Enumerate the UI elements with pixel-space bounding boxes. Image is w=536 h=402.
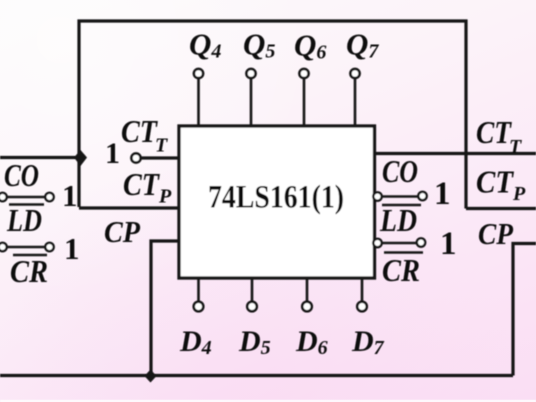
svg-text:1: 1	[105, 137, 120, 170]
overline LD left	[9, 203, 44, 205]
wire CP right riser	[513, 244, 536, 376]
pin CT_T circle	[131, 153, 140, 162]
svg-text:CO: CO	[4, 157, 39, 193]
svg-text:LD: LD	[379, 202, 417, 238]
pin Q5 stub	[246, 69, 255, 127]
svg-text:74LS161(1): 74LS161(1)	[208, 180, 344, 216]
svg-text:CT: CT	[476, 164, 514, 200]
node junction left	[74, 150, 87, 166]
svg-text:CT: CT	[476, 114, 512, 150]
wire top bus	[79, 21, 466, 209]
wire CO right output	[376, 152, 536, 155]
jumper LD left	[0, 193, 54, 201]
node junction bottom	[145, 370, 157, 383]
svg-text:T: T	[509, 136, 522, 158]
svg-text:CR: CR	[382, 252, 420, 288]
pin Q6 stub	[299, 69, 308, 127]
svg-text:P: P	[512, 183, 526, 205]
svg-text:CO: CO	[382, 153, 418, 189]
svg-text:1: 1	[440, 226, 457, 262]
pin D6 stub	[302, 278, 312, 311]
pin Q7 stub	[350, 69, 359, 127]
wire left CO feed	[0, 156, 79, 159]
overline LD right	[382, 204, 421, 206]
pin Q4 stub	[194, 69, 203, 127]
svg-text:1: 1	[434, 176, 451, 212]
svg-text:CT: CT	[123, 166, 160, 202]
jumper CR left	[0, 243, 54, 251]
svg-text:CR: CR	[10, 253, 48, 289]
wire bottom bus	[0, 374, 513, 377]
svg-text:1: 1	[64, 231, 80, 266]
svg-text:CP: CP	[478, 216, 514, 251]
overline CR left	[13, 254, 47, 256]
wire CT_P right branch	[466, 207, 536, 210]
pin D7 stub	[357, 278, 367, 311]
svg-text:1: 1	[62, 178, 78, 213]
svg-text:T: T	[155, 135, 168, 157]
overline CR right	[384, 251, 423, 253]
svg-text:CP: CP	[104, 214, 141, 249]
jumper LD right	[373, 192, 426, 201]
pin D5 stub	[247, 278, 257, 311]
wire CT_P left input	[79, 206, 178, 209]
svg-text:P: P	[158, 186, 172, 208]
svg-text:LD: LD	[6, 202, 42, 238]
wire CP left input	[151, 241, 178, 376]
jumper CR right	[373, 238, 425, 247]
pin D4 stub	[194, 278, 204, 311]
chip U1 74LS161(1) body	[179, 126, 375, 278]
svg-text:CT: CT	[121, 113, 158, 149]
wire CT_T pin stub	[141, 156, 179, 159]
